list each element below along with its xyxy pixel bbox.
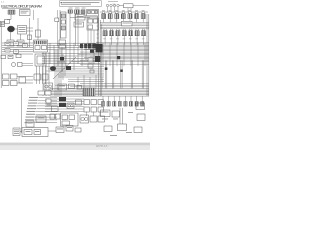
terminal block TB1 xyxy=(0,22,5,27)
drop to lower connector 7 xyxy=(136,96,138,102)
long bus y81 xyxy=(68,80,104,82)
wire tag 3 xyxy=(110,134,117,137)
right mesh drop x=117 xyxy=(116,43,118,66)
timer unit TU1 xyxy=(52,106,59,112)
right mesh drop x=103 xyxy=(102,43,104,66)
key switch text 1 xyxy=(21,10,29,13)
center bus top 3 xyxy=(48,47,97,49)
relay RL2 xyxy=(14,42,19,45)
solenoid line pair a x=105.5 xyxy=(105,61,107,89)
pair line a xyxy=(119,108,121,124)
main trunk b xyxy=(99,20,101,96)
pilot lamp circle 1 xyxy=(106,4,108,6)
fuse row 3 xyxy=(19,30,26,33)
connector CN-B4 xyxy=(118,102,121,107)
resistor box RB1 xyxy=(124,4,134,8)
wire label 7 xyxy=(26,114,35,115)
diode block DB1 xyxy=(88,44,91,49)
sensor box SN-R2 xyxy=(137,114,145,121)
wire label 2 xyxy=(29,100,38,101)
K2 label xyxy=(18,41,23,44)
connector grid box r2c3 xyxy=(98,107,103,112)
connector CN-R4 xyxy=(121,14,125,19)
controller box CB1 xyxy=(35,54,46,66)
wiper motor M1 xyxy=(50,66,56,71)
relay RL5 xyxy=(14,50,19,53)
wire label 9 xyxy=(25,119,34,120)
right mesh line 14 xyxy=(80,59,149,61)
CN-R1 tag xyxy=(102,9,105,12)
leader line 1 xyxy=(39,97,58,99)
relay RL1 xyxy=(5,42,10,45)
center drop x=50 xyxy=(49,43,51,64)
drop CN-R1 xyxy=(103,19,105,23)
connector CN-S1 xyxy=(103,31,107,36)
connector CN-R3 xyxy=(115,14,119,19)
grid drop 1 xyxy=(86,112,88,117)
CN-S5 wire tag xyxy=(129,38,132,41)
note text line 2 xyxy=(61,3,91,6)
right mesh drop x=124 xyxy=(123,43,125,66)
pre-bus drop x=96 xyxy=(95,75,97,88)
lamp unit LU1 xyxy=(104,126,112,132)
sub box SB-C2 xyxy=(88,64,93,68)
relay box BR1 xyxy=(36,116,46,122)
drop CN-S1 xyxy=(104,36,106,45)
drop to lower connector 6 xyxy=(130,96,132,102)
sensor SN1 xyxy=(77,86,82,90)
CN-R4 cap xyxy=(122,12,124,14)
LP1 line2 xyxy=(14,130,19,133)
drop to lower connector 3 xyxy=(113,96,115,102)
CN-R2 tag xyxy=(109,9,112,12)
wire jog left xyxy=(7,19,11,21)
main trunk c xyxy=(101,24,103,96)
wire label 4 xyxy=(28,105,37,106)
left trunk x=49 xyxy=(48,52,50,96)
connector CN-S4 xyxy=(122,31,126,36)
label box LB1 xyxy=(122,21,133,26)
CN-R7 tag xyxy=(142,9,145,12)
JB2 cell 2 xyxy=(69,115,75,120)
JB2 cell 1 xyxy=(62,115,68,120)
valve unit VU1 xyxy=(66,126,73,132)
sensor box SN-B2 xyxy=(98,116,105,122)
center lower line 5 xyxy=(46,70,104,72)
center bus mid 5 xyxy=(42,63,100,65)
right edge harness b xyxy=(148,14,150,96)
drop to lower connector 5 xyxy=(124,96,126,102)
bottom-center bus 3 xyxy=(45,103,84,105)
left trunk x=43 xyxy=(42,52,44,96)
BR2 label xyxy=(28,122,33,125)
CB1 drop x=42.5 xyxy=(42,66,44,84)
solenoid line pair a x=142.2 xyxy=(141,61,143,89)
bus line mid 1 xyxy=(100,21,149,23)
sensor box SN-B1 xyxy=(90,116,97,122)
sensor SN-B3 xyxy=(75,128,81,132)
drop CN-S4 xyxy=(123,36,125,45)
meter dial 2 xyxy=(85,117,88,120)
wire CN-T2 down b xyxy=(77,14,79,46)
wire label 1 xyxy=(29,97,38,98)
pre-bus drop x=102 xyxy=(101,77,103,88)
monitor sub box 2 xyxy=(61,20,65,24)
bus line mid 4 xyxy=(100,26,149,28)
switch SW-B1 xyxy=(50,114,55,119)
wire fuse box right xyxy=(27,27,34,29)
JB2 cell 3 xyxy=(62,121,70,125)
sub box SB-C3 xyxy=(90,70,94,73)
note box xyxy=(60,1,102,6)
connector CN-S2 xyxy=(109,31,113,36)
relay RL8 xyxy=(16,54,21,57)
connector CN-B6 xyxy=(129,102,132,107)
connector CN-R7 xyxy=(141,14,145,19)
top-left header line xyxy=(2,8,30,10)
solenoid box SOL1 xyxy=(118,124,127,131)
center drop x=54 xyxy=(53,45,55,70)
svg-text:W1HH-4-5: W1HH-4-5 xyxy=(96,145,108,148)
sensor box SN-R3 xyxy=(134,127,142,133)
CU1 drop 2 xyxy=(90,30,92,46)
long bus y75 xyxy=(58,74,104,76)
tick 2 xyxy=(97,21,99,23)
tick 7 xyxy=(97,41,99,43)
washer motor M2 xyxy=(66,66,71,70)
main bus 6 xyxy=(50,95,149,97)
right mesh drop x=110 xyxy=(109,43,111,66)
gauge dial 1 xyxy=(45,85,48,88)
leader line 6 xyxy=(36,111,57,113)
right mesh line 13 xyxy=(96,58,149,60)
wire CN-T1 down xyxy=(69,13,71,46)
right mesh line 8 xyxy=(80,51,149,53)
CN-T2 tag xyxy=(75,7,80,10)
main bus 1 xyxy=(50,88,149,90)
horn wire b xyxy=(22,65,33,67)
pre-bus drop x=84 xyxy=(83,75,85,88)
harness line 2 xyxy=(37,18,39,40)
PU1 label xyxy=(57,128,63,131)
connector CN-B1 xyxy=(101,102,104,107)
CN-S3 wire tag xyxy=(116,38,119,41)
JB1 cell b xyxy=(42,46,47,50)
RL1 tag xyxy=(6,42,9,45)
leader line 3 xyxy=(38,102,58,104)
connector grid box r1c1 xyxy=(84,100,89,105)
control box CB-R1 xyxy=(101,110,111,117)
main harness vertical xyxy=(97,16,99,46)
glow relay K2 xyxy=(17,40,24,46)
HU1 label xyxy=(59,85,65,88)
right mesh line 5 xyxy=(90,47,149,49)
pre-bus drop x=90 xyxy=(89,77,91,88)
switch SW-L2 xyxy=(11,74,18,79)
tick 5 xyxy=(97,33,99,35)
code box 1 xyxy=(38,91,45,95)
connector strip CS1 xyxy=(83,88,95,96)
long bus y77 xyxy=(58,76,104,78)
solenoid plug mark 1 xyxy=(105,68,108,70)
switch block outline xyxy=(75,15,85,21)
long bus y85 xyxy=(55,84,149,86)
drop CN-S6 xyxy=(136,36,138,45)
center trunk x=57 xyxy=(56,50,58,96)
BR1 label xyxy=(38,117,45,120)
right mesh line 9 xyxy=(100,52,149,54)
connector CN-T3 xyxy=(81,10,85,14)
wire CN-T2 down a xyxy=(75,14,77,46)
drop CN-S7 xyxy=(143,36,145,45)
drop CN-S2 xyxy=(111,36,113,45)
wire fuse box right 2 xyxy=(27,30,34,32)
relay RL7 xyxy=(8,55,13,58)
wire tag 2 xyxy=(126,131,132,134)
aux line x57 xyxy=(57,10,59,46)
right edge harness a xyxy=(146,14,148,96)
center lower line 3 xyxy=(46,66,104,68)
wire right of key box xyxy=(33,10,35,20)
CN-S4 cap xyxy=(123,29,125,31)
pump unit PU1 xyxy=(56,127,64,133)
CN-R6 cap xyxy=(135,12,137,14)
BRB cell 2 xyxy=(34,130,41,135)
right mesh drop x=131 xyxy=(130,43,132,66)
diode block DB4 xyxy=(90,50,94,53)
leader line 4 xyxy=(37,105,57,107)
CB1 drop x=36.5 xyxy=(36,66,38,84)
ignition switch SW1 xyxy=(5,20,10,24)
right mesh line 4 xyxy=(78,46,149,48)
RB1 stub a xyxy=(127,8,129,12)
main trunk a xyxy=(98,16,100,96)
relay block RB-C1 xyxy=(59,97,66,101)
main bus 3 xyxy=(50,91,149,93)
CN-R1 cap xyxy=(102,12,104,14)
center lower line 6 xyxy=(60,72,104,74)
center bus mid 3 xyxy=(42,58,100,60)
battery B1 xyxy=(7,26,14,32)
connector CN-R1 xyxy=(102,14,106,19)
wire from FL1 down xyxy=(10,14,12,20)
JB1 cell a xyxy=(35,46,40,50)
center bus top 1 xyxy=(48,42,97,44)
wire tag 1 xyxy=(128,111,133,114)
CB1 inner xyxy=(37,56,45,64)
left bus 5 xyxy=(2,51,33,53)
wire battery to fuse box xyxy=(15,28,18,30)
leader line 7 xyxy=(36,113,58,115)
RL4 tag xyxy=(6,49,9,52)
fuse row 1 xyxy=(19,26,26,29)
relay mark RM1 xyxy=(60,57,64,60)
lamp stub 4 xyxy=(117,7,119,12)
solenoid plug mark 2 xyxy=(120,70,123,72)
wire resistor box right xyxy=(133,5,149,7)
pre-bus drop x=78 xyxy=(77,77,79,88)
wire switches right 2 xyxy=(17,82,33,84)
wire label 6 xyxy=(27,111,36,112)
grid drop 3 xyxy=(99,112,101,117)
RL3 tag xyxy=(24,44,27,47)
solenoid line pair b x=142.2 xyxy=(143,61,145,89)
connector CN-B7 xyxy=(135,102,138,107)
LB1 text xyxy=(123,22,132,25)
right mesh lower line 1 xyxy=(72,61,149,63)
leader line 8 xyxy=(35,116,57,118)
CN-T1 tag xyxy=(69,7,73,10)
horn H1 xyxy=(12,63,16,67)
wire across top-center xyxy=(83,15,97,17)
center drop x=70 xyxy=(69,45,71,64)
connector CN-R6 xyxy=(135,14,139,19)
long diagonal harness xyxy=(53,57,76,79)
long bus y79 xyxy=(68,78,104,80)
TR1 tag xyxy=(47,104,52,107)
solenoid line pair b x=112.5 xyxy=(113,61,115,89)
buzzer BZ1 xyxy=(76,100,82,105)
wire lamps to resistor box xyxy=(119,5,124,7)
connector grid box r2c1 xyxy=(84,107,89,112)
relay box BR2 xyxy=(26,121,34,127)
wire switches right xyxy=(17,76,33,78)
center bus mid 4 xyxy=(42,60,100,62)
CN-S4 wire tag xyxy=(123,38,126,41)
connector CN-S5 xyxy=(129,31,133,36)
center tag xyxy=(57,62,65,63)
gauge dial 2 xyxy=(49,85,52,88)
center drop x=58 xyxy=(57,43,59,66)
fuse F-C1 xyxy=(55,18,59,22)
connector CN-T1 xyxy=(68,10,73,13)
CN-S6 wire tag xyxy=(135,38,138,41)
CN-S7 wire tag xyxy=(142,38,145,41)
solenoid line pair b x=105.5 xyxy=(106,61,108,89)
switch block text xyxy=(77,15,84,18)
right mesh line 6 xyxy=(84,48,149,50)
lamp stub 2 xyxy=(110,7,112,12)
FU1 contact circle b xyxy=(71,105,73,107)
drop CN-R5 xyxy=(129,19,131,23)
relay box cell 3 xyxy=(95,11,98,14)
connector CN-B3 xyxy=(113,102,116,107)
LP1 line3 xyxy=(14,132,19,135)
drop CN-S3 xyxy=(117,36,119,45)
right mesh line 2 xyxy=(80,43,149,45)
RB1 stub b xyxy=(130,8,132,12)
drop CN-R2 xyxy=(109,19,111,23)
CN-R4 tag xyxy=(122,9,125,12)
grid drop 2 xyxy=(93,112,95,117)
solenoid line pair a x=120.8 xyxy=(120,61,122,89)
connector CN-S3 xyxy=(116,31,120,36)
control unit CU1 xyxy=(87,18,99,30)
connector grid box r1c2 xyxy=(91,100,96,105)
horn relay HR1 xyxy=(18,63,23,67)
bus line mid 3 xyxy=(100,25,149,27)
CU1 drop 3 xyxy=(93,30,95,46)
connector grid box r1c3 xyxy=(98,100,103,105)
switch SW-L5 xyxy=(19,77,26,83)
center bus mid 1 xyxy=(42,53,100,55)
CN-R5 tag xyxy=(128,9,131,12)
CN-S1 cap xyxy=(104,29,106,31)
CN-S6 cap xyxy=(136,29,138,31)
center trunk x=55 xyxy=(54,50,56,96)
lever switch box B xyxy=(59,45,66,48)
right mesh line 10 xyxy=(78,54,149,56)
page bottom shadow band xyxy=(0,143,150,146)
drop to lower connector 1 xyxy=(102,96,104,102)
right mesh drop x=138 xyxy=(137,43,139,66)
connector CN-S6 xyxy=(135,31,139,36)
bottom-center bus 4 xyxy=(45,106,84,108)
CB1 drop x=45.5 xyxy=(45,66,47,84)
center drop x=62 xyxy=(61,47,63,72)
wire label 8 xyxy=(26,117,35,118)
switch SW-L4 xyxy=(11,81,18,86)
center trunk x=63 xyxy=(62,54,64,80)
solenoid mark SV1 xyxy=(117,56,120,59)
tick 4 xyxy=(97,29,99,31)
wire LP1 to BRB xyxy=(20,131,22,133)
right mesh line 3 xyxy=(100,44,149,46)
connector CN-B2 xyxy=(107,102,110,107)
right mesh line 7 xyxy=(96,50,149,52)
TB1 label xyxy=(1,22,4,25)
RL2 tag xyxy=(15,42,18,45)
note text line 1 xyxy=(62,1,99,4)
wire SW-L5 right xyxy=(26,79,34,81)
meter dial 1 xyxy=(81,117,84,120)
center trunk x=65 xyxy=(64,56,66,76)
bus line mid 5 xyxy=(100,28,149,30)
drop CN-R6 xyxy=(136,19,138,23)
wire label 5 xyxy=(27,108,36,109)
starter relay K1 xyxy=(7,40,14,46)
CB1 drop x=39.5 xyxy=(39,66,41,84)
CU1 sub 2 xyxy=(94,19,98,23)
wire label 10 xyxy=(25,122,34,123)
relay box cell 2 xyxy=(92,11,95,14)
leader line 9 xyxy=(35,119,58,121)
junction box JB1 xyxy=(34,40,48,52)
top bus line xyxy=(100,11,148,13)
FU1 contact circle a xyxy=(68,105,70,107)
connector CN-S7 xyxy=(141,31,145,36)
center drop x=74 xyxy=(73,43,75,70)
CN-R5 cap xyxy=(129,12,131,14)
heater unit HU1 xyxy=(58,84,67,90)
bottom-center bus 2 xyxy=(45,101,84,103)
lamp stub 1 xyxy=(107,7,109,12)
BRB cell1 tag xyxy=(26,130,31,133)
center bus top 2 xyxy=(48,44,97,46)
control box CB-R2 xyxy=(112,111,120,117)
junction block JT2 xyxy=(95,56,101,62)
CN-R3 tag xyxy=(115,9,118,12)
fuse box FB1 xyxy=(18,26,27,35)
diode block DB0 xyxy=(80,44,83,48)
tick 6 xyxy=(97,37,99,39)
fusible link box FL1 xyxy=(8,10,15,14)
right mesh lower line 2 xyxy=(80,63,149,65)
center drop x=94 xyxy=(93,48,95,64)
harness boundary line xyxy=(29,18,31,47)
label column spine xyxy=(21,88,23,133)
leader line 5 xyxy=(37,108,58,110)
